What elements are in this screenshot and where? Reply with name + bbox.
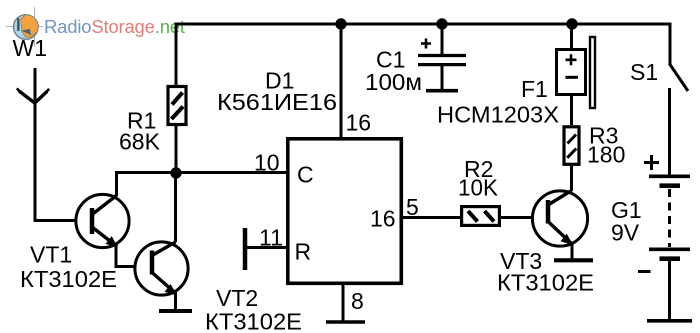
svg-text:НСМ1203Х: НСМ1203Х: [437, 102, 559, 128]
svg-text:S1: S1: [630, 59, 658, 85]
svg-text:К561ИЕ16: К561ИЕ16: [217, 89, 337, 115]
svg-text:16: 16: [346, 110, 372, 136]
svg-text:16: 16: [370, 206, 396, 232]
svg-text:C: C: [297, 162, 314, 188]
svg-text:11: 11: [259, 225, 283, 251]
svg-text:VT1: VT1: [30, 242, 72, 268]
svg-text:180: 180: [587, 142, 625, 168]
svg-text:F1: F1: [521, 76, 548, 102]
svg-text:RadioStorage.net: RadioStorage.net: [44, 16, 185, 37]
svg-text:КТ3102Е: КТ3102Е: [20, 266, 117, 292]
svg-text:9V: 9V: [611, 220, 640, 246]
svg-text:5: 5: [406, 194, 419, 220]
svg-text:10: 10: [254, 150, 280, 176]
svg-text:VT2: VT2: [216, 285, 258, 311]
svg-text:8: 8: [351, 288, 364, 314]
svg-text:КТ3102Е: КТ3102Е: [205, 309, 302, 333]
svg-text:68K: 68K: [119, 129, 161, 155]
svg-text:10K: 10K: [458, 175, 499, 201]
svg-text:100м: 100м: [365, 69, 422, 95]
svg-text:R: R: [295, 239, 312, 265]
svg-text:КТ3102Е: КТ3102Е: [497, 270, 594, 296]
svg-text:W1: W1: [13, 35, 48, 61]
